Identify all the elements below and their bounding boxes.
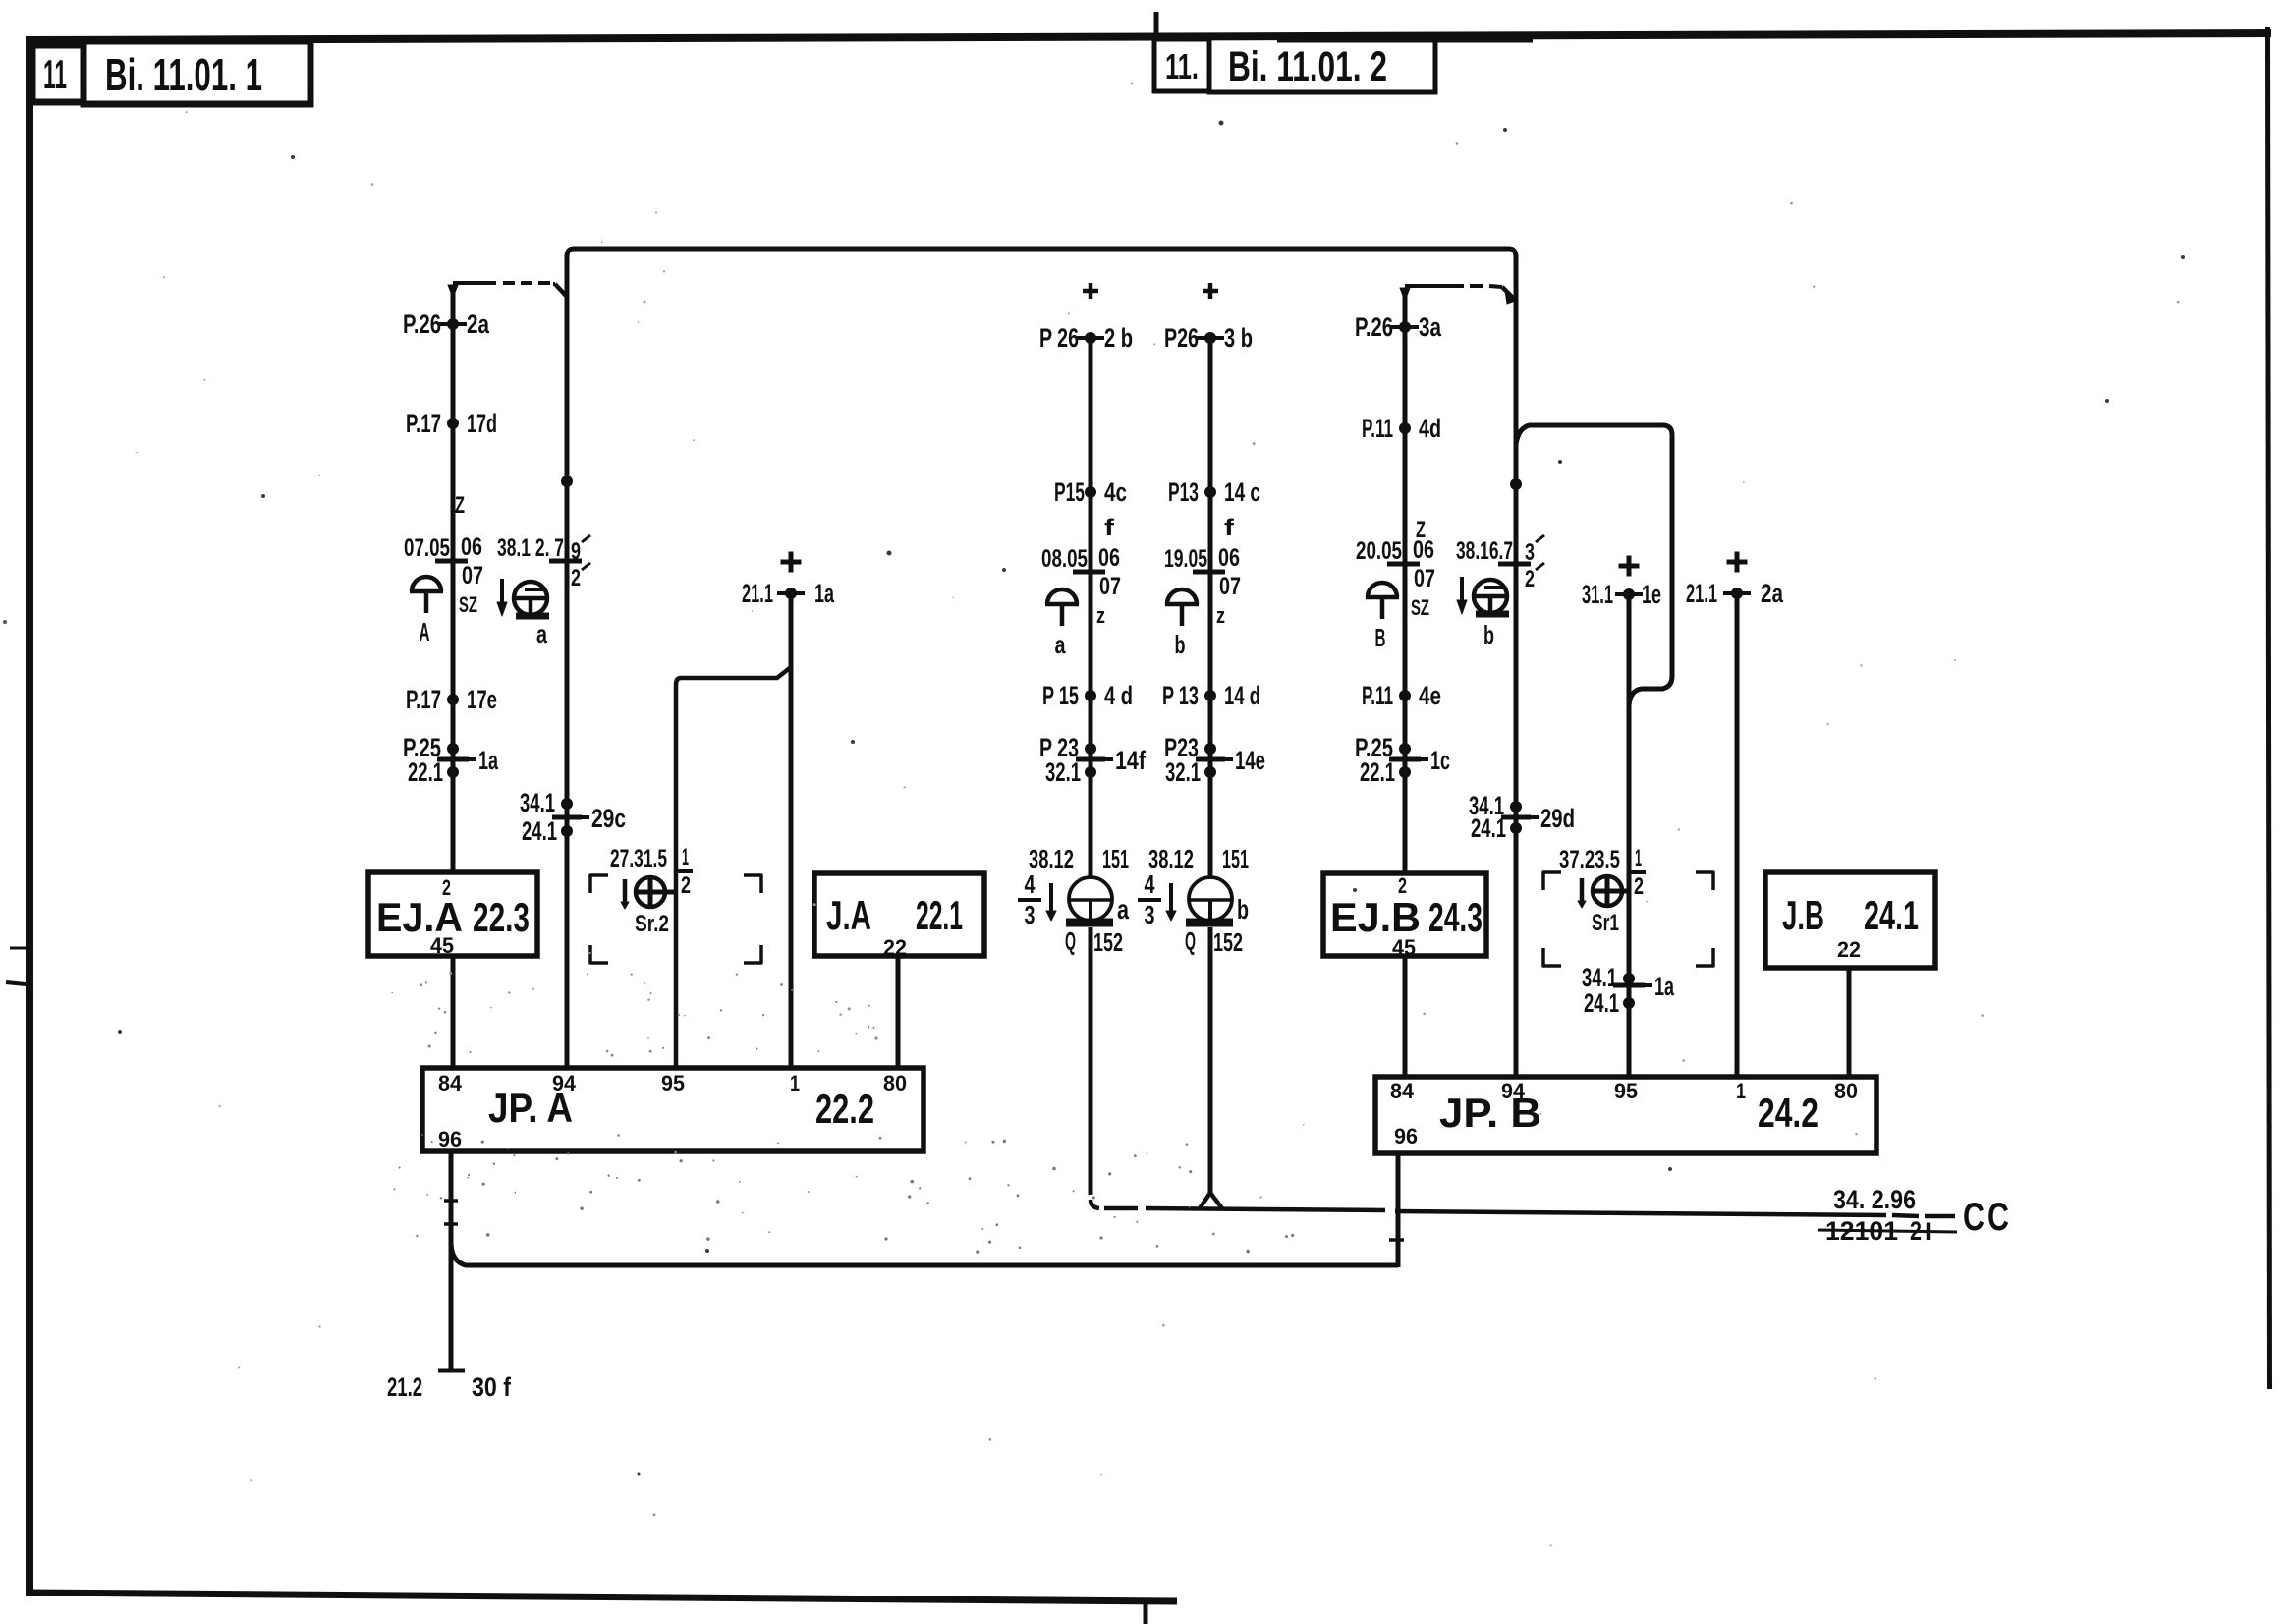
svg-text:3a: 3a [1419,312,1442,342]
svg-text:SZ: SZ [459,592,477,617]
svg-text:151: 151 [1222,844,1249,873]
svg-text:24.1: 24.1 [1471,813,1506,843]
svg-text:07: 07 [1219,573,1241,600]
svg-text:14 c: 14 c [1224,477,1260,507]
svg-text:17e: 17e [467,685,497,714]
svg-text:P.17: P.17 [406,409,441,438]
svg-text:4c: 4c [1104,477,1127,507]
svg-text:3 b: 3 b [1224,323,1253,353]
svg-text:4 d: 4 d [1104,681,1133,710]
svg-text:17d: 17d [467,409,497,438]
svg-text:21.2: 21.2 [387,1372,422,1402]
svg-text:22.1: 22.1 [1360,757,1395,787]
svg-text:37.23.5: 37.23.5 [1559,846,1620,873]
svg-text:1e: 1e [1642,580,1661,609]
svg-text:24.1: 24.1 [1584,988,1619,1018]
svg-text:1a: 1a [1654,972,1675,1001]
svg-text:24.3: 24.3 [1428,894,1483,940]
svg-text:06: 06 [1413,536,1434,564]
svg-text:22.1: 22.1 [408,757,443,787]
svg-text:P.11: P.11 [1362,681,1393,710]
svg-text:f: f [1104,515,1115,541]
svg-text:P 26: P 26 [1039,323,1079,353]
svg-text:P 13: P 13 [1162,681,1199,710]
svg-text:Z: Z [455,492,465,519]
svg-text:34. 2.96: 34. 2.96 [1833,1185,1916,1214]
svg-text:1: 1 [790,1071,800,1095]
svg-text:3: 3 [1025,900,1036,929]
svg-text:151: 151 [1102,844,1129,873]
svg-text:32.1: 32.1 [1045,757,1081,787]
svg-text:2: 2 [442,875,451,900]
svg-text:Q: Q [1065,926,1076,956]
svg-text:29c: 29c [591,804,626,833]
svg-text:11.: 11. [1165,46,1199,86]
svg-text:30 f: 30 f [472,1372,512,1402]
svg-text:38.12: 38.12 [1029,844,1074,873]
svg-text:1: 1 [1736,1079,1746,1103]
svg-text:24.1: 24.1 [1864,892,1919,938]
svg-text:27.31.5: 27.31.5 [610,845,667,872]
svg-text:P.17: P.17 [406,685,441,714]
svg-text:19.05: 19.05 [1164,545,1207,573]
svg-text:152: 152 [1213,927,1243,957]
svg-text:4d: 4d [1419,414,1441,443]
svg-text:152: 152 [1093,927,1123,957]
svg-text:3: 3 [1145,900,1155,929]
svg-text:45: 45 [1392,935,1416,960]
svg-text:38.1 2. 7: 38.1 2. 7 [497,534,564,562]
svg-text:94: 94 [552,1071,577,1095]
svg-text:EJ.B: EJ.B [1330,894,1421,940]
svg-text:08.05: 08.05 [1041,545,1088,573]
svg-text:07: 07 [1414,565,1435,592]
svg-text:24.1: 24.1 [522,816,557,846]
svg-text:80: 80 [883,1071,907,1095]
svg-text:32.1: 32.1 [1165,757,1201,787]
svg-text:Sr.2: Sr.2 [635,911,669,937]
svg-text:94: 94 [1501,1079,1526,1103]
svg-text:07: 07 [1099,573,1121,600]
svg-text:Bi. 11.01. 1: Bi. 11.01. 1 [105,49,262,100]
svg-text:45: 45 [430,933,454,958]
svg-text:4: 4 [1025,869,1036,899]
svg-text:38.12: 38.12 [1148,844,1194,873]
svg-text:06: 06 [1098,544,1120,572]
svg-text:2: 2 [571,565,581,591]
svg-text:95: 95 [661,1071,685,1095]
svg-text:22.2: 22.2 [815,1086,874,1132]
svg-text:3: 3 [1525,539,1535,566]
svg-text:07: 07 [462,562,483,589]
svg-text:P.26: P.26 [403,309,441,339]
svg-text:22.3: 22.3 [473,894,530,940]
svg-text:1: 1 [1635,845,1642,871]
svg-text:z: z [1096,603,1105,628]
svg-text:P13: P13 [1168,477,1199,507]
svg-text:22: 22 [883,935,907,960]
svg-text:a: a [1117,894,1129,924]
svg-text:34.1: 34.1 [520,788,555,817]
svg-text:21.1: 21.1 [742,579,773,608]
svg-text:2: 2 [681,872,691,899]
svg-text:b: b [1175,630,1186,659]
svg-text:z: z [1216,603,1225,628]
svg-text:84: 84 [1390,1079,1415,1103]
svg-text:24.2: 24.2 [1758,1090,1819,1136]
svg-text:P15: P15 [1054,477,1085,507]
svg-text:2: 2 [1398,873,1407,898]
svg-text:80: 80 [1834,1079,1858,1103]
svg-text:a: a [1055,630,1066,659]
svg-text:06: 06 [461,533,482,561]
svg-text:Sr1: Sr1 [1592,910,1619,936]
svg-text:95: 95 [1614,1079,1638,1103]
svg-text:2 b: 2 b [1104,323,1133,353]
svg-text:Q: Q [1185,926,1196,956]
svg-text:14 d: 14 d [1224,681,1260,710]
svg-text:J.B: J.B [1782,892,1824,938]
svg-text:84: 84 [438,1071,463,1095]
svg-text:SZ: SZ [1411,595,1429,620]
svg-text:29d: 29d [1540,804,1575,833]
svg-text:f: f [1224,515,1235,541]
svg-text:07.05: 07.05 [404,534,450,562]
svg-text:a: a [536,619,547,648]
svg-text:P.26: P.26 [1355,312,1393,342]
svg-text:2a: 2a [1761,579,1784,608]
svg-text:06: 06 [1218,544,1240,572]
svg-text:1a: 1a [814,579,835,608]
svg-text:31.1: 31.1 [1582,580,1613,609]
svg-text:38.16.7: 38.16.7 [1456,537,1513,565]
svg-text:CC: CC [1963,1196,2012,1239]
svg-text:9: 9 [571,538,581,565]
svg-text:2a: 2a [467,309,490,339]
svg-text:14f: 14f [1115,746,1147,775]
svg-text:JP. B: JP. B [1439,1090,1541,1136]
svg-text:4e: 4e [1419,681,1441,710]
svg-text:21.1: 21.1 [1686,579,1717,608]
svg-text:l: l [1925,1219,1931,1246]
svg-text:11: 11 [43,51,67,97]
svg-text:1c: 1c [1430,746,1450,775]
svg-text:22.1: 22.1 [916,892,963,938]
svg-text:1a: 1a [478,746,499,775]
svg-text:22: 22 [1837,937,1861,962]
svg-text:B: B [1375,623,1386,652]
svg-text:96: 96 [1394,1124,1418,1148]
svg-text:A: A [420,617,430,646]
svg-text:96: 96 [438,1127,462,1151]
svg-text:20.05: 20.05 [1356,537,1402,565]
svg-text:2: 2 [1525,566,1535,592]
svg-text:P.11: P.11 [1362,414,1393,443]
svg-text:4: 4 [1145,869,1155,899]
svg-text:Bi. 11.01. 2: Bi. 11.01. 2 [1228,43,1387,90]
svg-text:P 15: P 15 [1042,681,1079,710]
svg-text:1: 1 [682,844,689,870]
svg-text:2: 2 [1634,873,1644,900]
svg-text:J.A: J.A [826,892,871,938]
svg-text:b: b [1237,894,1249,924]
svg-text:P26: P26 [1164,323,1199,353]
svg-text:b: b [1483,620,1494,649]
svg-text:14e: 14e [1235,746,1265,775]
